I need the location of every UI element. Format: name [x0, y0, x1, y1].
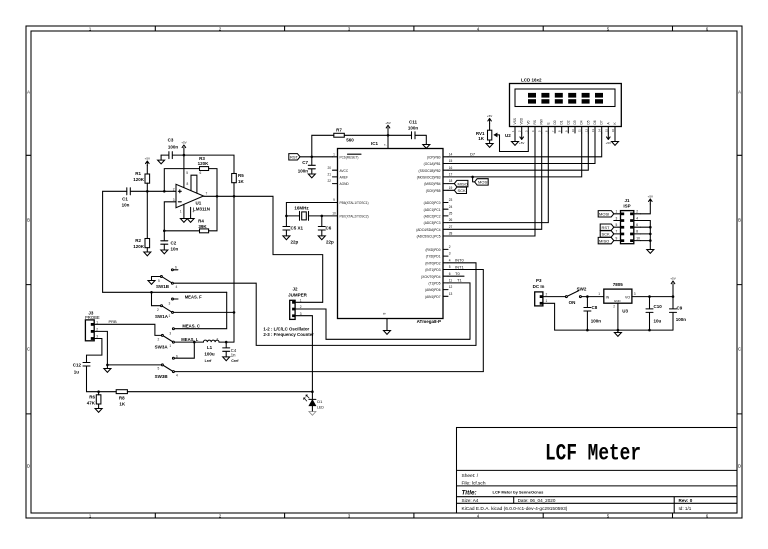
wire INT1 down [448, 270, 483, 372]
wire D5 to PB2 [448, 133, 588, 170]
svg-text:AVCC: AVCC [340, 169, 349, 173]
wire RS to PC5 [448, 133, 535, 236]
svg-text:A: A [27, 90, 30, 95]
svg-text:LCD 16x2: LCD 16x2 [521, 77, 542, 82]
svg-text:+5V: +5V [145, 157, 150, 161]
svg-text:+5V: +5V [385, 121, 390, 125]
svg-text:2: 2 [613, 304, 615, 308]
svg-text:5: 5 [158, 279, 160, 283]
svg-text:120K: 120K [198, 161, 210, 166]
wire SW3B throw6 to tank [175, 342, 195, 358]
svg-text:A: A [738, 90, 741, 95]
power +5V at VDD (down) [520, 133, 524, 140]
resistor R2 [146, 191, 148, 252]
capacitor C1 [127, 188, 148, 195]
svg-text:12: 12 [449, 285, 453, 289]
wire J3 pin2 to gnd node [94, 331, 161, 365]
svg-text:16: 16 [449, 166, 453, 170]
svg-text:(AIN0)PD6: (AIN0)PD6 [425, 288, 441, 292]
svg-text:INT0: INT0 [455, 258, 464, 263]
switch SW1A [152, 292, 179, 319]
svg-text:8: 8 [187, 182, 189, 186]
LCD pin stubs 1-16 [515, 127, 615, 134]
svg-text:VDD: VDD [520, 117, 524, 124]
svg-text:22: 22 [327, 179, 331, 183]
wire U3 GND down [617, 303, 619, 330]
svg-text:ISP: ISP [623, 204, 630, 209]
svg-text:(SS/OC1B)PB2: (SS/OC1B)PB2 [419, 169, 441, 173]
svg-text:RW: RW [540, 119, 544, 124]
svg-text:100n: 100n [591, 318, 602, 323]
svg-text:LCF Meter by SenneOcnus: LCF Meter by SenneOcnus [493, 490, 545, 495]
svg-text:C8: C8 [592, 305, 598, 310]
pin 1 PC6/RESET [333, 156, 338, 158]
svg-text:ATmega8-P: ATmega8-P [417, 319, 441, 324]
svg-text:Lref: Lref [205, 359, 213, 363]
svg-text:R1: R1 [135, 171, 141, 176]
ground at C5 [283, 236, 290, 240]
svg-text:D5: D5 [586, 120, 590, 124]
svg-text:(SCK)PB5: (SCK)PB5 [426, 189, 441, 193]
svg-text:6: 6 [175, 265, 177, 269]
LCD pin names vertical [513, 117, 617, 124]
capacitor C6 [318, 216, 334, 244]
svg-text:560: 560 [346, 138, 354, 143]
wire P3 pin2 to SW2 [543, 296, 565, 298]
svg-text:T0: T0 [455, 271, 460, 276]
svg-text:18: 18 [449, 179, 453, 183]
svg-text:2: 2 [217, 337, 219, 341]
global label MOSI at PB3 [471, 176, 474, 179]
svg-text:C3: C3 [168, 137, 174, 142]
svg-text:9: 9 [616, 236, 618, 240]
global label MISO at PB4 [448, 183, 454, 185]
ground at SW1B [148, 277, 155, 285]
wire inverting input [164, 202, 199, 231]
svg-text:R8: R8 [119, 396, 125, 401]
wire U3 output [632, 296, 673, 298]
svg-text:C6: C6 [326, 226, 332, 231]
wire oscillator input node [103, 291, 227, 293]
svg-text:3: 3 [173, 198, 175, 202]
svg-text:Date: 06_04_2020: Date: 06_04_2020 [518, 498, 556, 503]
svg-text:U2: U2 [505, 133, 511, 138]
regulator U3 7805 [598, 282, 636, 313]
svg-text:MEAS. F: MEAS. F [185, 294, 202, 299]
svg-text:D3: D3 [573, 120, 577, 124]
svg-text:1u: 1u [74, 369, 80, 374]
svg-text:LM311N: LM311N [193, 206, 210, 211]
svg-text:1: 1 [180, 210, 182, 214]
svg-text:PROBE: PROBE [85, 315, 100, 320]
ground at D1 [309, 412, 316, 416]
svg-text:5: 5 [616, 223, 618, 227]
svg-text:R4: R4 [198, 219, 204, 224]
svg-text:KiCad E.D.A. kicad (6.0.0-rc1: KiCad E.D.A. kicad (6.0.0-rc1-dev-4-gc29… [462, 506, 568, 512]
svg-text:ON: ON [569, 300, 576, 305]
pin 20 AVCC [333, 169, 338, 171]
svg-text:C: C [738, 347, 741, 352]
ISP connector J1 [614, 198, 641, 244]
svg-text:2: 2 [158, 338, 160, 342]
wire J2 pin1 [295, 301, 323, 303]
wire J2 pin3 to D1 node [295, 316, 312, 392]
svg-text:C1: C1 [122, 196, 128, 201]
svg-text:+5V: +5V [519, 141, 524, 145]
svg-text:C9: C9 [677, 305, 683, 310]
svg-text:7: 7 [206, 192, 208, 196]
switch SW3A [155, 328, 175, 350]
wire input from C1 down-left [103, 191, 127, 292]
svg-text:J1: J1 [624, 198, 630, 203]
ground at LCD K [612, 133, 619, 145]
svg-text:9: 9 [333, 198, 335, 202]
svg-text:B: B [738, 218, 741, 223]
capacitor C7 [298, 157, 316, 178]
power +5V at LCD A (down) [607, 133, 611, 140]
svg-text:+5V: +5V [670, 277, 675, 281]
svg-text:1: 1 [616, 210, 618, 214]
svg-text:LCF Meter: LCF Meter [545, 440, 641, 466]
capacitor C10 [646, 297, 653, 331]
svg-text:6: 6 [200, 171, 202, 175]
switch SW1B [152, 265, 178, 289]
global label SCK at PB5 [448, 189, 454, 191]
wire RST to pin1 [300, 156, 333, 158]
op-amp gnd pins 1,4 [184, 205, 191, 219]
svg-text:25: 25 [449, 212, 453, 216]
resistor R3 [164, 169, 217, 197]
svg-text:5: 5 [186, 171, 188, 175]
svg-text:T1: T1 [457, 278, 462, 283]
power +5V at RV1 [488, 118, 492, 123]
svg-text:PRB: PRB [109, 319, 118, 324]
svg-text:RST: RST [602, 225, 611, 230]
svg-text:(T1)PD5: (T1)PD5 [428, 282, 440, 286]
svg-text:IC1: IC1 [371, 141, 379, 146]
svg-text:D2: D2 [566, 120, 570, 124]
ground at J3 pin2 node [104, 365, 111, 372]
resistor R4 [200, 229, 209, 233]
resistor R1 [146, 166, 148, 192]
svg-text:4: 4 [176, 373, 178, 377]
svg-text:2: 2 [157, 308, 159, 312]
svg-text:R5: R5 [238, 173, 244, 178]
svg-text:(INT0)PD2: (INT0)PD2 [425, 261, 440, 265]
capacitor C8 [584, 297, 591, 331]
wire SW1B throw4 to INT0 [174, 283, 476, 345]
svg-text:MISO: MISO [599, 238, 609, 243]
svg-text:39K: 39K [198, 224, 207, 229]
crystal X1 16MHz [285, 203, 337, 231]
wire RW to PC4 [448, 133, 542, 229]
svg-text:(ADC3)PC3: (ADC3)PC3 [424, 221, 441, 225]
svg-text:8: 8 [383, 313, 387, 315]
global label SCK at J1 pin7 [600, 231, 614, 237]
LCD pin numbers [511, 129, 615, 132]
svg-text:RST: RST [290, 155, 299, 160]
wire J2 pin2 to T1 [295, 309, 470, 339]
svg-text:7: 7 [384, 144, 388, 146]
wire SW3A throw1 to L1 [175, 341, 204, 343]
svg-text:INT1: INT1 [455, 264, 464, 269]
potentiometer RV1 [476, 114, 497, 147]
wire SW3B throw4 to INT1 [175, 371, 484, 373]
ground at C7 [308, 174, 315, 178]
svg-text:R3: R3 [199, 156, 205, 161]
svg-text:DC In: DC In [533, 284, 545, 289]
svg-text:PB6(XTAL1/TOSC1): PB6(XTAL1/TOSC1) [340, 201, 369, 205]
svg-text:2: 2 [636, 210, 638, 214]
wire V0 to RV1 wiper [494, 133, 528, 152]
capacitor C5 [283, 216, 299, 244]
pin 21 AREF [333, 176, 338, 178]
svg-text:1: 1 [169, 314, 171, 318]
connector P3 DC In [533, 278, 548, 306]
capacitor C12 [83, 363, 99, 392]
wire output feedback vertical to L/C tank [233, 196, 235, 342]
svg-text:V0: V0 [526, 120, 530, 124]
ground at J1 [647, 250, 654, 254]
svg-text:SW1B: SW1B [156, 284, 170, 289]
wires J1 pins 4,6,8,10 to ground [641, 221, 651, 250]
power +5V at R1 [146, 161, 150, 166]
svg-text:Rev: 0: Rev: 0 [679, 498, 693, 503]
svg-text:AREF: AREF [340, 176, 349, 180]
svg-text:120K: 120K [133, 177, 145, 182]
svg-text:(AIN1)PD7: (AIN1)PD7 [425, 295, 441, 299]
svg-text:11: 11 [449, 279, 453, 283]
right pin stubs [443, 157, 448, 296]
svg-text:MISO: MISO [458, 181, 468, 186]
svg-text:(ADC1)PC1: (ADC1)PC1 [424, 208, 441, 212]
svg-text:47K: 47K [87, 401, 96, 406]
LCD module U2 [505, 77, 621, 138]
svg-text:100n: 100n [408, 126, 419, 131]
wire J3 pin3 to C12 [87, 339, 102, 363]
svg-text:MEAS. C: MEAS. C [182, 323, 199, 328]
wire J3 pin1 to SW3A [94, 324, 161, 335]
svg-text:2-3 : Frequency Counter: 2-3 : Frequency Counter [263, 332, 314, 337]
svg-text:GND: GND [614, 299, 622, 303]
svg-text:D6: D6 [593, 120, 597, 124]
svg-text:16MHz: 16MHz [294, 206, 309, 211]
svg-text:+5V: +5V [606, 141, 611, 145]
svg-text:D: D [27, 464, 30, 469]
svg-text:27: 27 [449, 225, 453, 229]
svg-text:17: 17 [449, 173, 453, 177]
svg-text:SW3A: SW3A [155, 345, 169, 350]
svg-text:B: B [27, 218, 30, 223]
pin 22 AGND [333, 183, 338, 185]
svg-text:3: 3 [634, 292, 636, 296]
svg-text:MOSI: MOSI [599, 212, 609, 217]
svg-text:10u: 10u [654, 318, 662, 323]
svg-text:100n: 100n [298, 168, 309, 173]
connector J3 PROBE [85, 310, 100, 341]
ground at R2 [144, 252, 151, 256]
ground at R6 [95, 409, 102, 413]
LCD character blocks [528, 93, 603, 104]
diode D1 LED [311, 390, 314, 393]
capacitor C4 [223, 342, 230, 357]
ground at C11 [423, 145, 430, 149]
global label MOSI at J1 pin1 [598, 211, 614, 217]
svg-text:1: 1 [598, 292, 600, 296]
svg-text:E: E [546, 122, 550, 124]
svg-text:10n: 10n [122, 202, 130, 207]
wire SW3A throw3 to input node [175, 292, 227, 328]
svg-text:D1: D1 [317, 399, 323, 404]
svg-text:6: 6 [636, 223, 638, 227]
svg-text:(XCK/T0)PD4: (XCK/T0)PD4 [421, 275, 441, 279]
svg-text:SCK: SCK [458, 188, 467, 193]
svg-text:L1: L1 [207, 345, 213, 350]
title block [457, 428, 738, 514]
resistor R5 [232, 174, 237, 183]
svg-text:21: 21 [327, 173, 331, 177]
svg-text:14: 14 [449, 152, 453, 156]
wire D7 to PB0 [448, 133, 602, 157]
svg-text:10n: 10n [171, 246, 179, 251]
svg-text:100u: 100u [204, 352, 215, 357]
switch SW2 ON [565, 287, 586, 306]
svg-text:22p: 22p [326, 239, 334, 244]
svg-text:100n: 100n [168, 144, 179, 149]
wire output to J2 pin1 [234, 196, 323, 302]
svg-text:C11: C11 [409, 119, 418, 124]
ground at supply bus [614, 330, 621, 336]
global label RST [289, 154, 333, 160]
svg-text:8: 8 [636, 230, 638, 234]
svg-text:Size: A4: Size: A4 [462, 498, 479, 503]
svg-text:R2: R2 [135, 238, 141, 243]
svg-text:SW1A: SW1A [155, 314, 169, 319]
svg-text:File: lcf.sch: File: lcf.sch [462, 481, 486, 487]
svg-text:RS: RS [533, 120, 537, 124]
svg-text:(MOSI/OC2)PB3: (MOSI/OC2)PB3 [417, 176, 441, 180]
svg-text:R7: R7 [336, 128, 342, 133]
svg-text:C2: C2 [171, 240, 177, 245]
svg-text:10: 10 [636, 236, 640, 240]
svg-text:1n: 1n [231, 353, 236, 358]
svg-text:28: 28 [449, 232, 453, 236]
svg-text:IN: IN [606, 295, 610, 299]
svg-text:2: 2 [173, 187, 175, 191]
svg-text:U1: U1 [196, 200, 202, 205]
svg-text:1K: 1K [238, 179, 245, 184]
global label MISO at J1 pin9 [598, 237, 614, 243]
svg-text:3: 3 [449, 252, 451, 256]
svg-text:D0: D0 [553, 120, 557, 124]
svg-text:(OC1A)PB1: (OC1A)PB1 [424, 162, 441, 166]
ground at RV1 [486, 144, 493, 148]
svg-text:SW3B: SW3B [155, 374, 169, 379]
svg-text:SW2: SW2 [577, 287, 587, 292]
svg-text:2: 2 [449, 245, 451, 249]
svg-text:LED: LED [317, 406, 324, 410]
svg-text:24: 24 [449, 205, 453, 209]
capacitor C2 [161, 231, 168, 250]
wire SW2 to regulator [582, 296, 604, 298]
svg-text:26: 26 [449, 218, 453, 222]
svg-text:4: 4 [176, 285, 178, 289]
svg-text:Cref: Cref [231, 359, 239, 363]
svg-text:5: 5 [158, 366, 160, 370]
svg-text:VSS: VSS [513, 118, 517, 124]
svg-text:Id: 1/1: Id: 1/1 [679, 506, 692, 511]
ground at C2 [161, 250, 168, 254]
global label RST at J1 pin5 [600, 224, 614, 230]
ground at VSS [512, 133, 519, 145]
svg-text:1K: 1K [119, 402, 126, 407]
svg-text:PC6(RESET): PC6(RESET) [340, 155, 359, 159]
svg-text:AGND: AGND [340, 182, 350, 186]
svg-text:6: 6 [449, 272, 451, 276]
svg-text:22p: 22p [291, 239, 299, 244]
wire INT0 down [448, 263, 476, 346]
svg-text:J2: J2 [292, 286, 298, 291]
svg-text:+5V: +5V [487, 114, 492, 118]
svg-text:(RXD)PD0: (RXD)PD0 [425, 248, 440, 252]
svg-text:+5V: +5V [181, 141, 186, 145]
svg-text:C12: C12 [73, 362, 82, 367]
capacitor C11 [388, 119, 430, 148]
svg-text:1: 1 [333, 152, 335, 156]
svg-text:(ICP)PB0: (ICP)PB0 [427, 155, 441, 159]
svg-text:(ADC2)PC2: (ADC2)PC2 [424, 215, 441, 219]
microcontroller IC1 ATmega8 [327, 135, 452, 334]
svg-text:RV1: RV1 [476, 131, 485, 136]
svg-text:100n: 100n [676, 317, 687, 322]
svg-text:3: 3 [616, 216, 618, 220]
svg-text:10: 10 [332, 212, 336, 216]
pin 7 VCC top [387, 135, 389, 148]
ground at C6 [318, 236, 325, 240]
op-amp U1 LM311N [183, 155, 185, 187]
right side pin names [416, 155, 441, 299]
svg-text:Sheet: /: Sheet: / [462, 473, 479, 479]
svg-text:VO: VO [625, 295, 630, 299]
svg-text:4: 4 [636, 216, 638, 220]
svg-text:7: 7 [616, 230, 618, 234]
svg-text:PB7(XTAL2/TOSC2): PB7(XTAL2/TOSC2) [340, 214, 369, 218]
wire T0 stub [448, 275, 464, 277]
wire T1 down [448, 283, 470, 339]
svg-text:R6: R6 [89, 395, 95, 400]
ground pins 1,4 [180, 219, 194, 223]
svg-text:JUMPER: JUMPER [288, 292, 308, 297]
svg-text:1: 1 [169, 344, 171, 348]
capacitor C3 [161, 152, 184, 159]
svg-text:D7: D7 [470, 152, 476, 157]
resistor R7 [312, 128, 388, 157]
svg-text:5: 5 [449, 265, 451, 269]
wire J1 pin2 to +5V [641, 204, 651, 214]
pin 8 GND bottom [386, 319, 388, 331]
svg-text:MEAS. L: MEAS. L [181, 337, 198, 342]
wire D4 to PB3 [448, 133, 582, 177]
svg-text:(ADC4/SDA)PC4: (ADC4/SDA)PC4 [416, 228, 440, 232]
wire op-amp output [204, 195, 235, 197]
svg-text:4: 4 [193, 210, 195, 214]
wire E to PC3 [448, 133, 548, 223]
oscillator comparator section [103, 137, 323, 342]
svg-text:3: 3 [169, 331, 171, 335]
svg-text:D: D [738, 464, 741, 469]
switch SW3B [155, 354, 178, 379]
svg-text:7805: 7805 [613, 282, 624, 287]
